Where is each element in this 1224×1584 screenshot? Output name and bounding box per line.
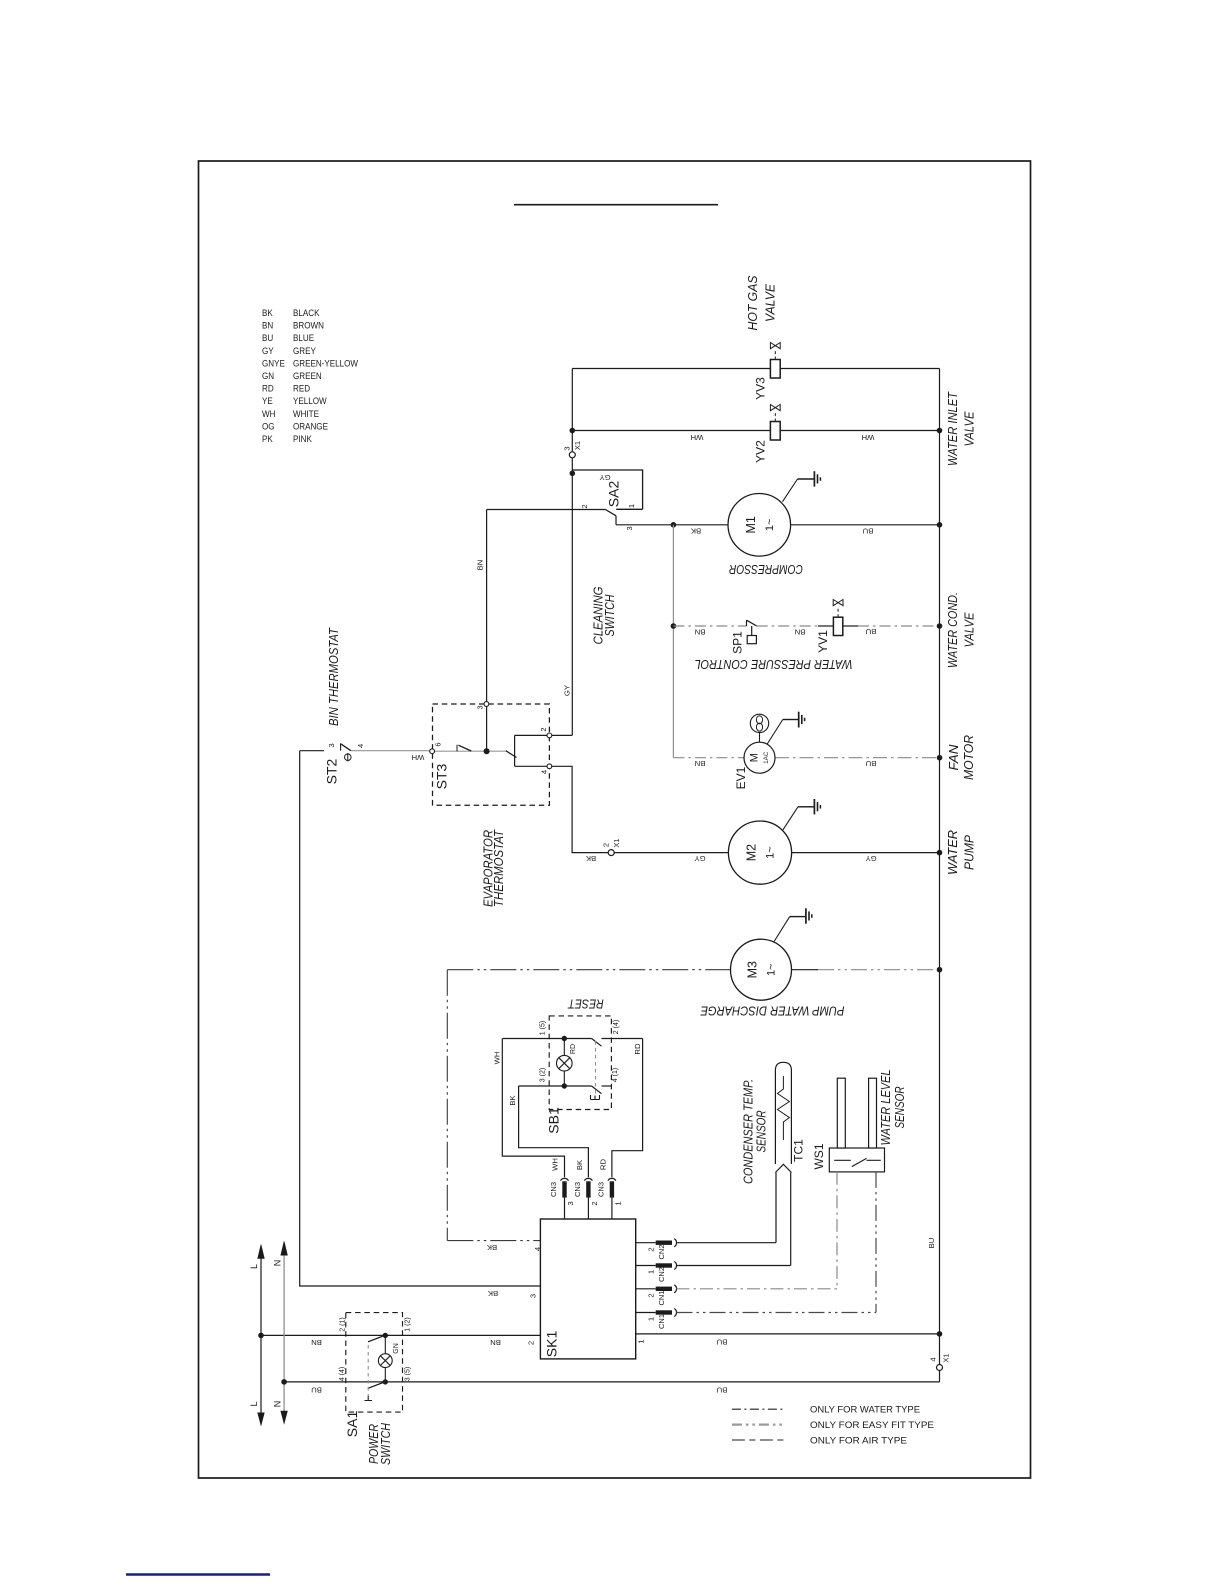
- svg-text:CN2: CN2: [657, 1267, 666, 1282]
- sensor WS1 water level: [829, 1078, 884, 1312]
- svg-text:POWERSWITCH: POWERSWITCH: [367, 1422, 393, 1465]
- svg-text:BK: BK: [585, 854, 596, 863]
- wire RD path (reset to CN3-1): [612, 1039, 643, 1178]
- svg-text:3: 3: [327, 743, 336, 747]
- svg-text:HOT GASVALVE: HOT GASVALVE: [745, 275, 778, 330]
- lamp GN in SA1: [378, 1335, 392, 1382]
- wire right bus: [939, 369, 941, 1382]
- svg-text:X1: X1: [612, 838, 621, 847]
- line type legend: [732, 1405, 934, 1446]
- svg-text:CN3: CN3: [549, 1182, 558, 1197]
- svg-text:CLEANINGSWITCH: CLEANINGSWITCH: [592, 586, 618, 644]
- svg-text:WS1: WS1: [812, 1143, 826, 1169]
- svg-text:PK: PK: [262, 433, 273, 444]
- wire WH path (reset to CN3-3): [502, 1039, 564, 1178]
- svg-text:L: L: [249, 1401, 259, 1406]
- svg-text:2: 2: [527, 1341, 536, 1345]
- fan motor EV1: [734, 714, 775, 789]
- svg-text:BN: BN: [476, 560, 485, 571]
- svg-text:2 (1): 2 (1): [340, 1317, 347, 1331]
- supply line L: [249, 1245, 264, 1426]
- svg-text:N: N: [273, 1260, 283, 1267]
- svg-text:1: 1: [646, 1270, 655, 1274]
- svg-text:BK: BK: [487, 1289, 498, 1298]
- thermostat ST2: [300, 743, 432, 784]
- node dot GY/WH: [570, 428, 576, 434]
- svg-text:2: 2: [646, 1293, 655, 1297]
- svg-text:BROWN: BROWN: [293, 320, 324, 331]
- svg-text:3: 3: [625, 526, 634, 530]
- ground M1: [783, 471, 821, 502]
- svg-text:M1: M1: [744, 516, 758, 533]
- svg-text:BK: BK: [690, 527, 701, 536]
- svg-text:COMPRESSOR: COMPRESSOR: [729, 562, 803, 577]
- svg-text:CN3: CN3: [597, 1182, 606, 1197]
- valve YV2: [754, 405, 781, 463]
- svg-text:GY: GY: [563, 685, 572, 696]
- svg-text:YV2: YV2: [754, 440, 768, 463]
- wire M3 row right: [792, 969, 819, 971]
- svg-text:RESET: RESET: [567, 997, 604, 1011]
- svg-text:BN: BN: [262, 320, 273, 331]
- svg-text:WH: WH: [412, 753, 425, 762]
- svg-text:WATER COND.VALVE: WATER COND.VALVE: [945, 592, 977, 668]
- svg-text:YE: YE: [262, 396, 273, 407]
- svg-text:M: M: [749, 753, 761, 762]
- svg-text:GY: GY: [262, 345, 274, 356]
- footer line: [126, 1573, 270, 1575]
- svg-text:RED: RED: [293, 383, 310, 394]
- svg-text:WHITE: WHITE: [293, 408, 319, 419]
- sensor TC1 condenser temp: [775, 1062, 791, 1265]
- svg-text:SA2: SA2: [606, 481, 622, 508]
- valve YV1: [816, 600, 843, 653]
- svg-text:GY: GY: [694, 854, 705, 863]
- wire GY bus upper: [571, 369, 573, 736]
- node dot fan row / bus: [937, 755, 943, 761]
- svg-text:BU: BU: [927, 1238, 936, 1249]
- terminal X1-3: [569, 452, 575, 458]
- SB1 mechanical link: [595, 1041, 597, 1096]
- svg-text:1: 1: [637, 1339, 646, 1343]
- title underline: [514, 204, 718, 206]
- svg-text:BU: BU: [866, 627, 877, 636]
- connector CN1 pin 1: [636, 1309, 876, 1330]
- svg-text:PINK: PINK: [293, 433, 312, 444]
- svg-text:ONLY FOR EASY FIT TYPE: ONLY FOR EASY FIT TYPE: [810, 1420, 934, 1430]
- svg-text:BN: BN: [695, 759, 706, 768]
- svg-text:L: L: [249, 1264, 259, 1269]
- svg-text:ONLY FOR AIR TYPE: ONLY FOR AIR TYPE: [810, 1435, 907, 1445]
- svg-text:BN: BN: [695, 628, 706, 637]
- svg-text:RD: RD: [633, 1043, 642, 1055]
- svg-text:X1: X1: [942, 1353, 951, 1362]
- SA1 mechanical link: [367, 1345, 369, 1396]
- switch SA2 (cleaning switch): [487, 470, 643, 531]
- svg-text:RD: RD: [262, 383, 274, 394]
- node dot SB1 lamp bottom: [562, 1083, 567, 1088]
- svg-text:3 (2): 3 (2): [540, 1068, 547, 1082]
- svg-text:FANMOTOR: FANMOTOR: [946, 735, 976, 780]
- connector CN3 pin 1: [597, 1159, 623, 1219]
- node dot SA1 top: [383, 1333, 388, 1338]
- motor M1 compressor: [728, 494, 791, 557]
- pressure switch SP1: [747, 620, 757, 644]
- node dot M1 row / bus: [937, 522, 943, 528]
- svg-text:WATER INLETVALVE: WATER INLETVALVE: [945, 391, 977, 466]
- svg-text:M3: M3: [746, 961, 760, 978]
- svg-text:BLACK: BLACK: [293, 307, 320, 318]
- svg-text:ONLY FOR WATER TYPE: ONLY FOR WATER TYPE: [810, 1405, 920, 1415]
- lamp RD in SB1: [557, 1039, 573, 1087]
- wire WH row (water inlet): [572, 430, 939, 432]
- wire M1 row: [616, 524, 940, 526]
- wire water pressure row: [673, 625, 939, 627]
- node dot GY/SA2: [570, 471, 576, 477]
- connector CN2 pin 1: [636, 1262, 791, 1283]
- svg-text:GNYE: GNYE: [262, 358, 285, 369]
- svg-text:BK: BK: [262, 307, 273, 318]
- svg-text:SP1: SP1: [731, 631, 745, 654]
- svg-text:GREEN-YELLOW: GREEN-YELLOW: [293, 358, 359, 369]
- wire BN vertical (SA2 to ST3): [486, 510, 488, 752]
- svg-text:2: 2: [602, 843, 611, 847]
- svg-text:4 (4): 4 (4): [339, 1367, 346, 1381]
- svg-text:1~: 1~: [764, 519, 776, 532]
- svg-text:YV3: YV3: [754, 377, 768, 400]
- svg-text:SA1: SA1: [344, 1411, 360, 1438]
- ST3 internal switch: [434, 735, 547, 766]
- svg-text:4: 4: [356, 743, 365, 748]
- svg-text:RD: RD: [599, 1159, 608, 1171]
- svg-text:3: 3: [476, 705, 485, 709]
- svg-text:BU: BU: [262, 333, 273, 344]
- svg-text:OG: OG: [262, 421, 275, 432]
- wire M2 row: [614, 852, 939, 854]
- terminal X1-4: [937, 1365, 943, 1371]
- svg-text:SK1: SK1: [544, 1331, 560, 1358]
- svg-text:BN: BN: [795, 628, 806, 637]
- node dot N / BU: [281, 1379, 287, 1385]
- svg-text:GN: GN: [262, 370, 274, 381]
- svg-text:2: 2: [539, 727, 548, 731]
- node dot M1 row / cleaning vertical: [671, 522, 677, 528]
- SB1 bottom contact wire: [519, 1086, 612, 1094]
- svg-text:2: 2: [646, 1247, 655, 1251]
- svg-text:1~: 1~: [765, 846, 777, 859]
- wire top hot-gas row: [572, 368, 939, 370]
- svg-text:GY: GY: [599, 473, 610, 482]
- svg-text:3: 3: [529, 1294, 538, 1298]
- svg-text:YV1: YV1: [816, 630, 830, 653]
- controller SK1 box: [540, 1219, 635, 1359]
- connector CN1 pin 2: [636, 1285, 837, 1306]
- svg-text:CONDENSER TEMP.SENSOR: CONDENSER TEMP.SENSOR: [742, 1079, 769, 1184]
- svg-text:N: N: [273, 1401, 283, 1408]
- ground M2: [783, 799, 820, 830]
- node dot SA1 bottom: [383, 1379, 388, 1384]
- terminal X1-2: [608, 850, 614, 856]
- thermostat ST3 box: [433, 704, 550, 805]
- svg-text:WH: WH: [551, 1158, 560, 1171]
- pin circle ST3-3: [484, 702, 489, 707]
- svg-text:BU: BU: [866, 759, 877, 768]
- svg-text:BU: BU: [311, 1386, 322, 1395]
- node dot SB1 lamp top: [562, 1036, 567, 1041]
- svg-text:BN: BN: [490, 1338, 501, 1347]
- pin circle ST3-6: [430, 749, 435, 754]
- motor M3 pump water discharge: [731, 939, 792, 1000]
- colour code legend: [262, 307, 359, 444]
- svg-text:BLUE: BLUE: [293, 333, 314, 344]
- svg-text:1 (2): 1 (2): [405, 1317, 412, 1331]
- svg-text:WH: WH: [262, 408, 275, 419]
- svg-text:EV1: EV1: [734, 766, 748, 789]
- power switch SA1 box: [346, 1313, 403, 1413]
- node dot bus/WH: [937, 428, 943, 434]
- svg-text:GREEN: GREEN: [293, 370, 322, 381]
- node dot M3 row / bus: [937, 967, 943, 973]
- svg-text:ST3: ST3: [434, 763, 450, 789]
- svg-text:ST2: ST2: [324, 758, 340, 784]
- svg-text:1~: 1~: [766, 963, 778, 976]
- svg-text:BU: BU: [717, 1386, 728, 1395]
- svg-text:PUMP WATER DISCHARGE: PUMP WATER DISCHARGE: [700, 1004, 844, 1019]
- svg-text:WATERPUMP: WATERPUMP: [945, 830, 977, 875]
- svg-text:CN3: CN3: [573, 1182, 582, 1197]
- svg-text:4 (1): 4 (1): [612, 1068, 619, 1082]
- wire ST3 pin2 to GY bus: [552, 734, 573, 736]
- svg-text:4: 4: [540, 770, 549, 774]
- svg-text:GN: GN: [393, 1343, 400, 1354]
- wire BK path (reset to CN3-2): [519, 1086, 589, 1177]
- connector CN3 pin 2: [573, 1159, 599, 1219]
- border frame: [199, 161, 1031, 1478]
- svg-text:2: 2: [580, 504, 589, 508]
- svg-text:BK: BK: [575, 1159, 584, 1170]
- pushbutton SB1 box: [549, 1016, 611, 1110]
- svg-text:SB1: SB1: [546, 1107, 562, 1134]
- wire fan motor row: [673, 757, 939, 759]
- connector CN2 pin 2: [636, 1239, 776, 1260]
- svg-text:WATER PRESSURE CONTROL: WATER PRESSURE CONTROL: [695, 657, 853, 672]
- ground EV1: [767, 712, 805, 745]
- motor M2 water pump: [728, 821, 791, 884]
- wire SK1 pin1 BU out: [636, 1333, 940, 1335]
- ground M3: [774, 908, 812, 941]
- svg-text:2: 2: [590, 1201, 599, 1205]
- svg-text:GREY: GREY: [293, 345, 316, 356]
- svg-text:WH: WH: [493, 1052, 502, 1065]
- svg-text:1: 1: [614, 1201, 623, 1205]
- node dot BN / ST3: [484, 748, 490, 754]
- svg-text:BU: BU: [863, 527, 874, 536]
- wire cleaning vertical: [672, 525, 674, 758]
- wire ST3 pin4 to X1-2: [552, 766, 608, 852]
- svg-text:BIN THERMOSTAT: BIN THERMOSTAT: [327, 627, 341, 726]
- svg-text:YELLOW: YELLOW: [293, 396, 327, 407]
- svg-text:BK: BK: [508, 1095, 517, 1106]
- wire BU bottom row: [284, 1381, 940, 1383]
- valve YV3: [754, 343, 781, 400]
- SA1 bottom blade: [368, 1382, 385, 1389]
- svg-text:GY: GY: [865, 854, 876, 863]
- svg-text:6: 6: [434, 742, 443, 746]
- wire BN row: [261, 1334, 540, 1336]
- svg-text:2 (4): 2 (4): [613, 1020, 620, 1034]
- node dot M2 row / bus: [937, 850, 943, 856]
- wire dash-dot-dot boundary (pump discharge loop): [447, 970, 730, 1241]
- node dot water pressure row / bus: [937, 623, 943, 629]
- svg-text:1: 1: [646, 1317, 655, 1321]
- svg-text:RD: RD: [570, 1044, 577, 1054]
- svg-text:TC1: TC1: [792, 1139, 806, 1162]
- supply line N: [273, 1241, 288, 1423]
- svg-text:1 (5): 1 (5): [540, 1021, 547, 1035]
- svg-text:BN: BN: [311, 1338, 322, 1347]
- svg-text:1: 1: [627, 504, 636, 508]
- SB1 top contact wire: [502, 1039, 642, 1047]
- svg-text:EVAPORATORTHERMOSTAT: EVAPORATORTHERMOSTAT: [482, 829, 507, 907]
- svg-text:WH: WH: [691, 433, 704, 442]
- svg-text:CN2: CN2: [657, 1244, 666, 1259]
- svg-text:CN1: CN1: [657, 1290, 666, 1305]
- svg-text:ORANGE: ORANGE: [293, 421, 328, 432]
- svg-text:WH: WH: [862, 433, 875, 442]
- pin circle ST3-4: [547, 764, 552, 769]
- node dot water pressure row: [671, 623, 677, 629]
- svg-text:WATER LEVELSENSOR: WATER LEVELSENSOR: [879, 1069, 907, 1145]
- SA1 top blade: [368, 1335, 385, 1342]
- svg-text:BK: BK: [486, 1243, 497, 1252]
- svg-text:4: 4: [929, 1357, 938, 1361]
- svg-text:X1: X1: [573, 441, 582, 450]
- pin circle ST3-2: [547, 733, 552, 738]
- svg-text:3: 3: [563, 446, 572, 450]
- wire ST2 left vertical to SK1 pin3: [300, 751, 541, 1286]
- svg-text:3 (5): 3 (5): [405, 1367, 412, 1381]
- svg-text:BU: BU: [717, 1338, 728, 1347]
- svg-text:M2: M2: [745, 844, 759, 861]
- svg-text:3: 3: [566, 1201, 575, 1205]
- svg-text:1AC: 1AC: [763, 751, 770, 764]
- node dot BU out / bus: [937, 1331, 943, 1337]
- node dot L / BN: [258, 1333, 264, 1339]
- svg-text:CN1: CN1: [657, 1314, 666, 1329]
- connector CN3 pin 3: [549, 1158, 575, 1219]
